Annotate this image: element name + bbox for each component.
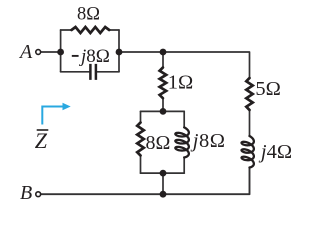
terminal B circle bbox=[36, 192, 41, 197]
capacitor -j8ohm plates bbox=[90, 64, 96, 80]
wire box2 bottom stub bbox=[162, 173, 164, 194]
wire 1-ohm bottom lead bbox=[162, 98, 164, 111]
wire A lead bbox=[41, 51, 61, 53]
node dot box2 bottom bbox=[160, 170, 167, 177]
node dot box1 left bbox=[57, 49, 64, 56]
node dot middle rail 1-ohm tap bbox=[160, 49, 167, 56]
svg-text:A: A bbox=[18, 41, 33, 63]
wire box1 right vertical bbox=[118, 30, 120, 72]
resistor 8ohm horizontal (top of box1) bbox=[72, 27, 110, 33]
svg-text:8Ω: 8Ω bbox=[146, 132, 171, 154]
svg-text:j4Ω: j4Ω bbox=[258, 141, 292, 163]
svg-text:5Ω: 5Ω bbox=[255, 78, 281, 100]
impedance arrow Z polyline bbox=[42, 107, 63, 125]
svg-text:B: B bbox=[20, 182, 32, 204]
wire box1 left vertical bbox=[60, 30, 62, 72]
wire box2 right vertical top lead bbox=[183, 111, 185, 127]
wire box2 left vertical top lead bbox=[140, 111, 142, 122]
wire box2 left vertical bottom lead bbox=[140, 156, 142, 174]
Z overbar bbox=[37, 129, 49, 131]
inductor j4ohm coil bbox=[242, 136, 254, 168]
wire box1 top rail right bbox=[109, 29, 119, 31]
resistor 5ohm bbox=[246, 78, 252, 110]
node dot box2 top bbox=[160, 108, 167, 115]
wire bottom rail bbox=[41, 168, 250, 195]
wire 1-ohm top lead bbox=[162, 52, 164, 68]
wire box1 bottom rail left bbox=[61, 71, 89, 73]
resistor 8ohm vertical (box2 left) bbox=[137, 123, 144, 156]
wire box2 right vertical bottom lead bbox=[183, 157, 185, 173]
label -j8ohm capacitor minus sign bbox=[72, 55, 79, 57]
svg-text:j8Ω: j8Ω bbox=[190, 130, 226, 152]
inductor j8ohm coil bbox=[175, 127, 189, 157]
svg-text:8Ω: 8Ω bbox=[77, 5, 100, 25]
svg-text:Z: Z bbox=[35, 128, 48, 153]
wire right branch middle bbox=[249, 110, 251, 136]
wire middle rail to right branch top bbox=[119, 52, 250, 78]
svg-text:1Ω: 1Ω bbox=[168, 72, 194, 94]
impedance arrow head bbox=[63, 103, 71, 110]
wire box2 top rail bbox=[141, 110, 185, 112]
resistor 1ohm bbox=[160, 68, 167, 99]
wire box1 top rail left bbox=[61, 29, 72, 31]
node dot bottom rail bbox=[160, 191, 167, 198]
wire box2 bottom rail bbox=[141, 172, 185, 174]
node dot box1 right bbox=[116, 49, 123, 56]
terminal A circle bbox=[36, 50, 41, 55]
svg-text:j8Ω: j8Ω bbox=[78, 46, 110, 67]
wire box1 bottom rail right bbox=[97, 71, 119, 73]
